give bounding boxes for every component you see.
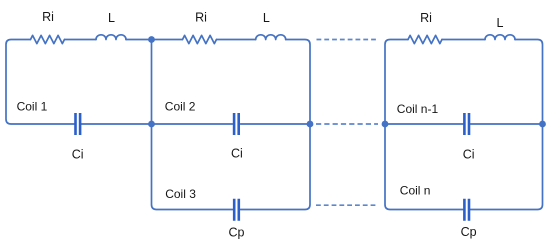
inductor L3	[485, 35, 515, 40]
wire L3 to coiln right edge	[515, 40, 543, 125]
node B junction dot	[148, 121, 155, 128]
node A junction dot	[148, 36, 155, 43]
resistor R3	[408, 35, 442, 43]
node D junction dot	[382, 121, 389, 128]
inductor L2	[256, 35, 286, 40]
wire L2 to coil2 right edge down to node C	[286, 40, 310, 125]
svg-text:L: L	[497, 16, 504, 30]
wire node D down coiln left edge to Cp	[385, 124, 463, 210]
svg-text:Cp: Cp	[229, 225, 245, 239]
svg-text:Ri: Ri	[42, 10, 54, 24]
resistor R2	[183, 35, 217, 43]
capacitor Cp1	[234, 199, 239, 221]
wire node A to R2	[152, 39, 183, 41]
wire capacitor Ci2 to node C	[240, 123, 310, 125]
node C junction dot	[307, 121, 314, 128]
svg-text:Ri: Ri	[195, 11, 207, 25]
wire capacitor Ci3 to node E	[471, 123, 543, 125]
capacitor Ci3	[464, 113, 469, 135]
inductor L1	[96, 35, 126, 40]
capacitor Cp2	[464, 199, 469, 221]
wire coil1 left edge	[6, 40, 75, 125]
svg-text:L: L	[263, 11, 270, 25]
svg-text:Coil n: Coil n	[400, 184, 431, 198]
wire capacitor Ci1 to node B	[81, 123, 152, 125]
wire node D to capacitor Ci3	[385, 123, 463, 125]
svg-text:Coil 1: Coil 1	[17, 100, 48, 114]
svg-text:Ci: Ci	[231, 147, 243, 161]
svg-text:Ri: Ri	[420, 11, 432, 25]
wire node A down to node B and coil3 left edge	[152, 40, 233, 210]
capacitor Ci1	[76, 113, 81, 135]
svg-text:Ci: Ci	[72, 148, 84, 162]
wire node C down coil3 right edge	[240, 124, 310, 210]
wire between R3 and L3	[442, 39, 485, 41]
wire dashed top	[317, 39, 378, 41]
svg-text:Cp: Cp	[461, 225, 477, 239]
capacitor Ci2	[234, 113, 239, 135]
wire node E down to Cp right	[471, 124, 543, 210]
node E junction dot	[539, 121, 546, 128]
wire node B to capacitor Ci2	[152, 123, 233, 125]
svg-text:Coil 2: Coil 2	[165, 99, 196, 113]
svg-text:Coil n-1: Coil n-1	[397, 102, 439, 116]
svg-text:Coil 3: Coil 3	[165, 187, 196, 201]
wire L1 to node A	[126, 39, 152, 41]
wire coiln-1 left edge top	[385, 40, 408, 125]
wire between R1 and L1	[64, 39, 96, 41]
resistor R1	[31, 35, 65, 43]
wire dashed bottom	[316, 204, 377, 206]
svg-text:L: L	[108, 11, 115, 25]
wire between R2 and L2	[216, 39, 255, 41]
wire dashed middle	[316, 123, 378, 125]
svg-text:Ci: Ci	[463, 147, 475, 161]
